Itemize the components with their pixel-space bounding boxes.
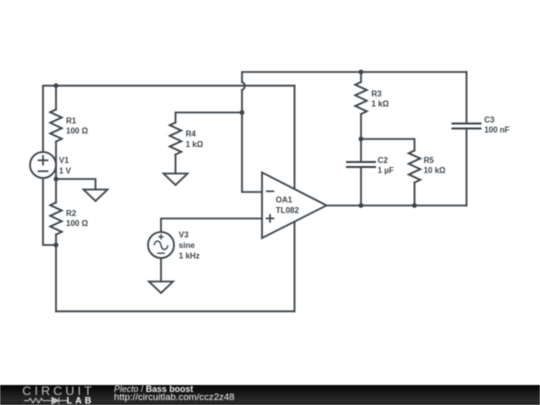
wire right column upper segment to C3 top [466,72,468,124]
footer title text [114,384,193,394]
wire R4 top lead and horizontal run to feedback column [176,113,243,123]
capacitor C2 [347,162,375,167]
resistor R2 [50,203,62,235]
wire C2 top lead [360,139,362,162]
voltage source V3 (sine) [148,232,174,258]
resistor R4 [170,123,182,155]
wire R2 bottom lead down to bottom net [55,235,57,312]
svg-text:1 kΩ: 1 kΩ [186,140,204,149]
voltage source V1 [30,152,56,178]
wire R1 top lead from top net junction [55,86,57,110]
wire R3 bottom lead to mid-right junction [360,114,362,139]
svg-text:V3: V3 [179,231,189,240]
footer url text [114,392,235,403]
junction node (C2 bottom / output net) [359,203,364,208]
svg-text:R5: R5 [424,156,435,165]
resistor R5 [409,151,421,183]
resistor R3 [355,82,367,114]
wire op-amp output net across to right column [327,205,467,207]
capacitor C3 [453,124,481,129]
wire mid junction to ground stub [56,179,96,190]
wire feedback column lower segment into inverting input [242,90,262,192]
wire R1 bottom lead to mid junction [55,142,57,180]
wire top-left net from V1 top across to x=294.5 [43,86,295,152]
svg-text:1 kHz: 1 kHz [179,251,200,260]
wire V1 bottom lead down to jog [43,178,56,245]
junction node (top net / R1) [54,83,59,88]
wire R5 bottom lead to output net [414,183,416,206]
svg-text:1 kΩ: 1 kΩ [371,100,389,109]
wire right column lower segment from C3 bottom [466,129,468,206]
svg-text:R4: R4 [186,130,197,139]
wire mid-right junction across to R5 top lead [361,139,415,151]
resistor R1 [50,110,62,142]
junction node (R3 top / top-right net) [359,70,364,75]
ground (R4) [164,174,188,186]
wire C2 bottom lead to output net [360,167,362,206]
svg-text:1 µF: 1 µF [378,166,394,175]
junction node (R3 bottom / C2 / R5) [359,137,364,142]
svg-text:R1: R1 [66,116,77,125]
junction node (R5 bottom / output net) [412,203,417,208]
svg-text:C2: C2 [378,156,389,165]
footer bar [0,385,540,405]
junction node (R4 / feedback column) [240,110,245,115]
svg-text:100 nF: 100 nF [484,126,509,135]
svg-text:LAB: LAB [67,395,95,405]
wire vertical x=294.5 behind op-amp joining top wire to bottom wire [294,86,296,312]
junction node (R1/R2/ground) [54,177,59,182]
svg-text:V1: V1 [59,156,69,165]
wire hop over x=242 crossing [242,82,245,90]
svg-text:sine: sine [179,241,196,250]
svg-text:1 V: 1 V [59,166,72,175]
wire feedback column upper segment with corner to top-right net [242,72,467,82]
svg-text:R2: R2 [66,209,77,218]
wire R2 top lead [55,179,57,203]
svg-text:100 Ω: 100 Ω [66,127,89,136]
svg-text:R3: R3 [371,89,382,98]
op-amp OA1 [262,173,327,239]
svg-text:C3: C3 [484,115,495,124]
wire bottom net from R2 bottom to x=294.5 [56,310,295,312]
svg-text:100 Ω: 100 Ω [66,219,89,228]
wire R4 bottom lead to ground [175,155,177,174]
svg-text:OA1: OA1 [276,196,293,205]
ground (V3) [149,282,173,294]
wire non-inverting input from V3 top [161,219,262,233]
wire V3 bottom lead to ground [160,258,162,282]
svg-text:TL082: TL082 [276,206,300,215]
svg-text:10 kΩ: 10 kΩ [424,166,447,175]
junction node (R2 bottom / V1 return) [54,243,59,248]
CircuitLab logo resistor-diode glyph [24,397,68,404]
ground (R1-R2 midpoint) [84,190,108,202]
wire R3 top lead [360,72,362,82]
